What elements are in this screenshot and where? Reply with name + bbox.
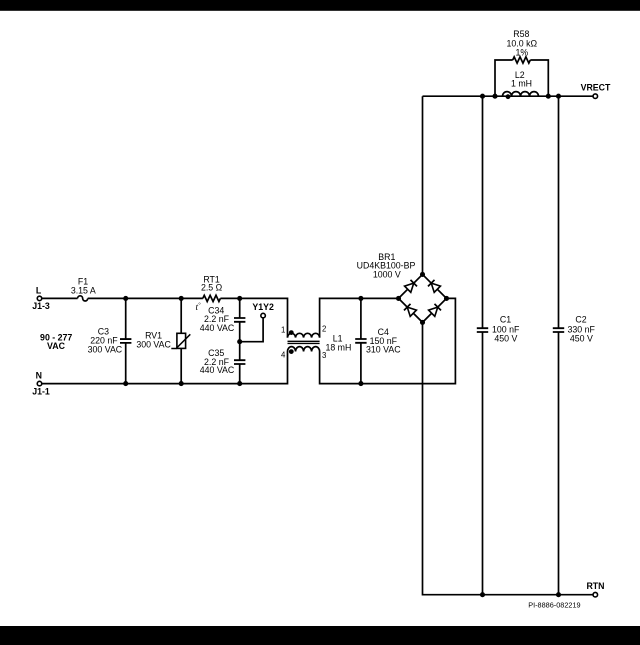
svg-text:1000 V: 1000 V: [373, 270, 401, 280]
svg-text:4: 4: [281, 351, 286, 360]
svg-text:J1-3: J1-3: [32, 301, 50, 311]
svg-text:PI-8886-082219: PI-8886-082219: [528, 601, 580, 610]
svg-text:N: N: [36, 370, 42, 380]
svg-text:VAC: VAC: [47, 341, 66, 351]
svg-text:3.15 A: 3.15 A: [71, 285, 96, 295]
svg-text:300 VAC: 300 VAC: [88, 345, 123, 355]
svg-text:450 V: 450 V: [494, 334, 517, 344]
svg-text:VRECT: VRECT: [581, 83, 611, 93]
svg-text:1 mH: 1 mH: [511, 78, 532, 88]
svg-text:450 V: 450 V: [570, 334, 593, 344]
svg-text:3: 3: [322, 351, 326, 360]
svg-text:300 VAC: 300 VAC: [136, 339, 171, 349]
svg-text:C2: C2: [575, 315, 586, 325]
svg-text:RTN: RTN: [586, 581, 604, 591]
svg-text:440 VAC: 440 VAC: [200, 365, 235, 375]
svg-text:1: 1: [281, 325, 285, 334]
svg-text:440 VAC: 440 VAC: [200, 323, 235, 333]
svg-text:Y1Y2: Y1Y2: [252, 302, 274, 312]
svg-text:310 VAC: 310 VAC: [366, 345, 401, 355]
svg-text:2: 2: [322, 324, 326, 333]
svg-text:J1-1: J1-1: [32, 387, 50, 397]
svg-text:2.5 Ω: 2.5 Ω: [201, 283, 223, 293]
svg-text:R58: R58: [513, 29, 529, 39]
svg-text:C1: C1: [500, 315, 511, 325]
svg-text:L: L: [36, 285, 42, 295]
svg-text:1%: 1%: [515, 47, 528, 57]
svg-text:18 mH: 18 mH: [325, 342, 351, 352]
